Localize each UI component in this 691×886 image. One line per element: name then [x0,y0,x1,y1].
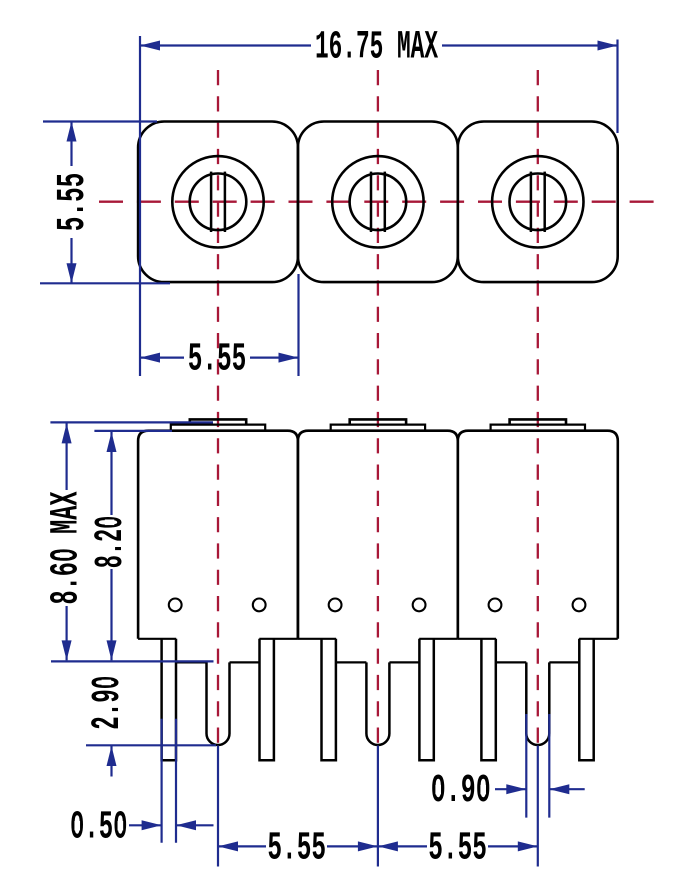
dimension 8.20 line [110,432,112,515]
right pin unit 3 [579,639,593,761]
center rotor pin unit 2 [366,662,389,745]
adjustment cap upper tier unit 3 [510,419,566,424]
adjustment cap lower tier unit 1 [171,425,265,431]
hole left unit 3 [489,599,502,612]
extension line center unit 1 for 5.55 pitch dim [217,746,219,867]
extension line bottom of 5.55 height dim [40,282,170,284]
top view outer circle unit 3 [492,156,583,247]
left pin unit 1 [162,639,176,761]
label 5.55 pitch right [428,825,487,870]
label 0.90 [431,768,491,813]
hole right unit 3 [573,599,586,612]
ledge left of center pin unit 2 [336,661,367,663]
left pin unit 2 [322,639,336,761]
body bottom edge left segment unit 3 [458,638,496,640]
body bottom edge right segment unit 2 [419,638,458,640]
label 2.90 [85,676,130,730]
extension line top of 8.60 MAX dim [50,421,213,423]
dimension 0.50 line [129,824,162,826]
ledge left of center pin unit 1 [176,661,207,663]
centerline vertical unit 3 [537,70,539,743]
top view outer circle unit 2 [332,156,423,247]
svg-text:16.75 MAX: 16.75 MAX [315,24,438,69]
centerline vertical unit 1 [217,70,219,743]
hole left unit 1 [169,599,182,612]
label 8.20 [88,516,133,569]
extension line right edge of pin for 0.50 dim [175,719,177,843]
extension line bottom of 8.60/8.20 dims [51,660,214,662]
svg-text:5.55: 5.55 [50,173,95,232]
centerline vertical unit 2 [377,70,379,743]
dimension 2.90 line [110,746,112,777]
label 16.75 MAX [315,24,438,69]
adjustment cap upper tier unit 1 [190,419,246,424]
right pin unit 1 [260,639,274,761]
extension line right of 5.55 width dim [297,274,299,376]
svg-text:5.55: 5.55 [267,825,326,870]
front view body unit 1 [138,431,298,639]
extension line center unit 3 for 5.55 pitch dim [537,746,539,867]
top view rotor circle unit 3 [510,174,567,231]
hole left unit 2 [329,599,342,612]
ledge left of center pin unit 3 [496,661,527,663]
svg-text:5.55: 5.55 [428,825,487,870]
hole right unit 1 [253,599,266,612]
svg-text:8.60 MAX: 8.60 MAX [43,491,88,604]
center rotor pin unit 1 [207,662,230,745]
extension line right of 16.75 dim [616,40,618,134]
top view rotor circle unit 1 [190,174,247,231]
svg-text:5.55: 5.55 [188,336,247,381]
extension line at rotor pin tip for 2.90 dim [86,744,216,746]
top view screw slot unit 1 [210,172,213,232]
dimension 5.55 width line [140,357,184,359]
center rotor pin unit 3 [526,662,549,745]
label 5.55 height [50,173,95,232]
extension line top of 8.20 dim [94,430,172,432]
extension line right edge of rotor pin for 0.90 dim [548,714,550,818]
top view body unit 2 [298,122,458,283]
top view body unit 1 [138,122,298,283]
dimension 16.75 MAX line [140,44,311,46]
extension line top of 5.55 height dim [43,120,157,122]
front view body unit 3 [458,431,618,639]
dimension 8.60 MAX line [65,423,67,490]
right pin unit 2 [419,639,433,761]
label 5.55 width [188,336,247,381]
extension line left edge of rotor pin for 0.90 dim [525,714,527,818]
top view rotor circle unit 2 [350,174,407,231]
top view screw slot unit 2 [370,172,373,232]
top view body unit 3 [458,122,618,283]
dimension 5.55 pitch right line [378,845,427,847]
body bottom edge left segment unit 2 [298,638,336,640]
ledge right of center pin unit 1 [230,661,260,663]
body bottom edge right segment unit 3 [579,638,618,640]
ledge right of center pin unit 3 [549,661,579,663]
adjustment cap lower tier unit 3 [491,425,585,431]
label 5.55 pitch left [267,825,326,870]
front view body unit 2 [298,431,458,639]
body bottom edge left segment unit 1 [138,638,176,640]
label 8.60 MAX [43,491,88,604]
ledge right of center pin unit 2 [389,661,419,663]
dimension 5.55 height line [70,122,72,167]
centerline horizontal top view [99,201,654,203]
top view screw slot unit 3 [530,172,533,232]
top view outer circle unit 1 [172,156,263,247]
left pin unit 3 [481,639,495,761]
hole right unit 2 [413,599,426,612]
dimension 0.90 line [495,788,526,790]
adjustment cap upper tier unit 2 [350,419,406,424]
extension line left edge of pin for 0.50 dim [161,719,163,843]
label 0.50 [70,804,128,849]
extension line center unit 2 for 5.55 pitch dim [377,746,379,867]
extension line left of 16.75 dim [139,36,141,376]
body bottom edge right segment unit 1 [259,638,298,640]
dimension 5.55 pitch left line [218,845,266,847]
adjustment cap lower tier unit 2 [331,425,425,431]
